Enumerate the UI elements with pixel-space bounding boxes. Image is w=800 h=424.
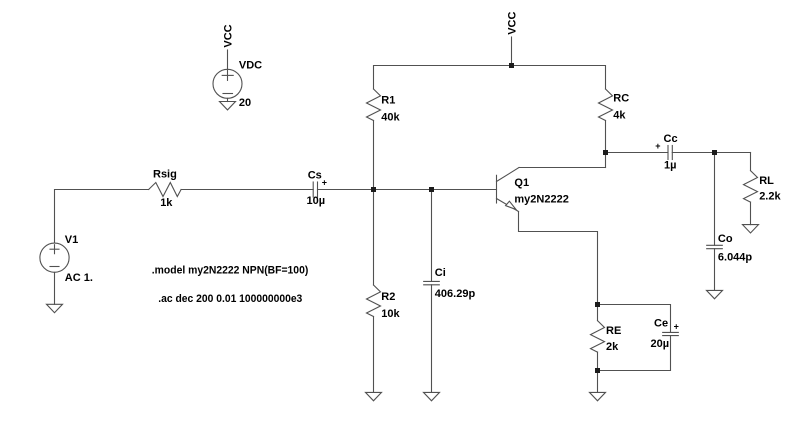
label R2 xyxy=(381,291,395,303)
ground under Co xyxy=(707,290,723,298)
junction node Ci tap xyxy=(429,187,434,192)
capacitor Cc xyxy=(668,146,672,160)
capacitor Ci xyxy=(424,281,440,284)
resistor RE xyxy=(591,321,605,353)
svg-text:VDC: VDC xyxy=(239,60,262,72)
wire RC to collector node xyxy=(605,121,607,168)
svg-text:VCC: VCC xyxy=(223,24,235,47)
svg-text:Co: Co xyxy=(718,233,733,245)
svg-text:+: + xyxy=(674,322,679,332)
svg-text:R1: R1 xyxy=(381,94,395,106)
svg-text:.ac dec 200 0.01 100000000e3: .ac dec 200 0.01 100000000e3 xyxy=(158,293,302,305)
resistor R1 xyxy=(367,89,381,121)
value 1u xyxy=(664,160,676,172)
label RL xyxy=(759,175,774,187)
junction node R1-R2-base xyxy=(371,187,376,192)
value 4k xyxy=(613,109,626,121)
value 10u xyxy=(307,195,326,207)
label RE xyxy=(606,325,621,337)
capacitor Co xyxy=(707,245,723,248)
svg-text:Ci: Ci xyxy=(435,267,446,279)
wire RL to ground xyxy=(750,202,752,225)
value AC 1. xyxy=(65,272,93,284)
svg-text:R2: R2 xyxy=(381,291,395,303)
wire Co tap xyxy=(714,153,716,246)
ground under V1 xyxy=(47,304,63,312)
svg-text:406.29p: 406.29p xyxy=(435,288,476,300)
label Ci xyxy=(435,267,446,279)
wire emitter node to RE xyxy=(597,305,599,321)
svg-text:+: + xyxy=(655,141,660,151)
label Cc xyxy=(664,133,678,145)
label R1 xyxy=(381,94,395,106)
label V1 xyxy=(65,234,78,246)
value 2.2k xyxy=(759,190,781,202)
junction node collector xyxy=(603,150,608,155)
value 10k xyxy=(381,308,400,320)
value 20u xyxy=(651,338,670,350)
value 1k xyxy=(160,197,173,209)
junction node VCC rail xyxy=(509,63,514,68)
svg-text:my2N2222: my2N2222 xyxy=(514,194,568,206)
svg-text:2k: 2k xyxy=(606,341,619,353)
plus Cc xyxy=(655,141,660,151)
voltage source V1 xyxy=(40,243,69,304)
svg-text:+: + xyxy=(322,177,327,187)
label Q1 xyxy=(514,177,529,189)
wire RL top xyxy=(750,153,752,171)
capacitor Ce xyxy=(663,332,679,335)
wire main left segment V1 to Rsig xyxy=(55,190,149,244)
ground under RE xyxy=(590,392,606,400)
wire VCC stub top rail xyxy=(511,37,513,66)
value 2k xyxy=(606,341,619,353)
ground under VDC xyxy=(220,102,236,110)
ground under RL xyxy=(743,225,759,233)
svg-text:AC 1.: AC 1. xyxy=(65,272,93,284)
ground under Ci xyxy=(424,392,440,400)
wire R1 to main node xyxy=(373,121,375,190)
junction node emitter bottom xyxy=(595,368,600,373)
wire Ci to ground xyxy=(431,285,433,393)
wire Ce bottom branch xyxy=(598,336,671,371)
voltage source VDC xyxy=(213,50,242,102)
wire Cs to Q1 base xyxy=(318,189,497,191)
wire Rsig to Cs xyxy=(181,189,313,191)
svg-text:20µ: 20µ xyxy=(651,338,670,350)
label Ce xyxy=(654,318,668,330)
ground under R2 xyxy=(366,392,382,400)
plus Cs xyxy=(322,177,327,187)
svg-text:Rsig: Rsig xyxy=(153,169,177,181)
value 40k xyxy=(381,111,400,123)
spice directive .model xyxy=(152,264,309,276)
svg-text:Q1: Q1 xyxy=(514,177,529,189)
svg-text:.model my2N2222 NPN(BF=100): .model my2N2222 NPN(BF=100) xyxy=(152,264,309,276)
transistor Q1 xyxy=(497,168,520,212)
junction node emitter top xyxy=(595,302,600,307)
svg-text:RC: RC xyxy=(613,92,629,104)
wire Ce top branch xyxy=(598,305,671,333)
resistor R2 xyxy=(367,285,381,317)
wire R2 to ground xyxy=(373,317,375,393)
label RC xyxy=(613,92,629,104)
svg-text:RL: RL xyxy=(759,175,774,187)
svg-text:6.044p: 6.044p xyxy=(718,251,753,263)
svg-text:10k: 10k xyxy=(381,308,400,320)
wire main node to R2 xyxy=(373,190,375,286)
value 20 xyxy=(239,97,251,109)
wire Co to ground xyxy=(714,249,716,291)
value my2N2222 xyxy=(514,194,568,206)
plus Ce xyxy=(674,322,679,332)
wire RE to bottom node xyxy=(597,352,599,370)
node VCC label top rail xyxy=(507,12,519,35)
wire top rail xyxy=(374,66,606,90)
label Cs xyxy=(308,170,322,182)
wire collector to RC node xyxy=(519,167,606,169)
resistor Rsig xyxy=(149,183,182,197)
svg-text:2.2k: 2.2k xyxy=(759,190,781,202)
wire collector node to Cc xyxy=(606,152,669,154)
spice directive .ac xyxy=(158,293,302,305)
value 406.29p xyxy=(435,288,476,300)
label Co xyxy=(718,233,733,245)
svg-text:V1: V1 xyxy=(65,234,78,246)
svg-text:1k: 1k xyxy=(160,197,173,209)
svg-text:Ce: Ce xyxy=(654,318,668,330)
value 6.044p xyxy=(718,251,753,263)
svg-text:Cc: Cc xyxy=(664,133,678,145)
wire Cc to RL corner xyxy=(672,152,750,154)
svg-text:VCC: VCC xyxy=(507,12,519,35)
svg-text:4k: 4k xyxy=(613,109,626,121)
wire emitter path xyxy=(519,212,598,305)
wire bottom node to ground xyxy=(597,371,599,393)
wire Ci tap xyxy=(431,190,433,282)
node VCC label above VDC xyxy=(223,24,235,47)
svg-text:20: 20 xyxy=(239,97,251,109)
junction node Co tap xyxy=(712,150,717,155)
resistor RC xyxy=(599,89,613,121)
svg-text:10µ: 10µ xyxy=(307,195,326,207)
svg-text:1µ: 1µ xyxy=(664,160,676,172)
label VDC xyxy=(239,60,262,72)
label Rsig xyxy=(153,169,177,181)
svg-text:40k: 40k xyxy=(381,111,400,123)
svg-text:RE: RE xyxy=(606,325,621,337)
capacitor Cs xyxy=(313,182,317,197)
resistor RL xyxy=(744,171,758,203)
svg-text:Cs: Cs xyxy=(308,170,322,182)
